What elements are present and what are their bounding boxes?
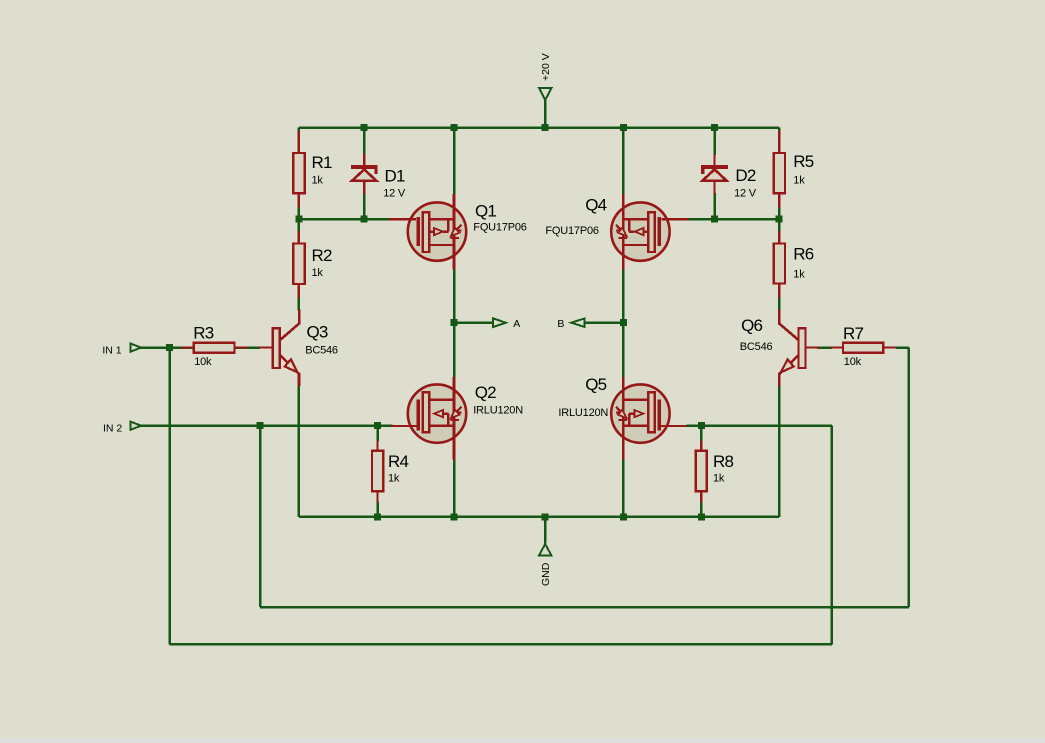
- svg-text:R4: R4: [388, 452, 408, 471]
- svg-text:10k: 10k: [844, 356, 862, 368]
- svg-text:Q5: Q5: [585, 375, 606, 394]
- svg-text:Q6: Q6: [741, 316, 762, 335]
- svg-text:IRLU120N: IRLU120N: [473, 405, 523, 417]
- svg-text:R5: R5: [793, 152, 813, 171]
- svg-text:R7: R7: [843, 324, 863, 343]
- svg-text:IN 1: IN 1: [102, 344, 121, 356]
- svg-text:R2: R2: [312, 246, 332, 265]
- svg-text:1k: 1k: [793, 269, 805, 281]
- svg-text:BC546: BC546: [740, 341, 773, 353]
- svg-text:IN 2: IN 2: [103, 422, 122, 434]
- svg-text:R3: R3: [193, 324, 213, 343]
- svg-text:A: A: [513, 318, 520, 330]
- svg-text:12 V: 12 V: [383, 187, 406, 199]
- svg-text:1k: 1k: [713, 473, 725, 485]
- svg-text:+20 V: +20 V: [540, 53, 552, 81]
- svg-text:D2: D2: [735, 166, 755, 185]
- svg-text:BC546: BC546: [305, 345, 338, 357]
- svg-text:12 V: 12 V: [734, 187, 757, 199]
- svg-text:GND: GND: [540, 562, 552, 586]
- svg-text:1k: 1k: [312, 267, 324, 279]
- svg-text:1k: 1k: [312, 175, 324, 187]
- svg-text:1k: 1k: [793, 175, 805, 187]
- svg-text:R6: R6: [793, 245, 813, 264]
- svg-text:1k: 1k: [388, 473, 400, 485]
- svg-text:Q3: Q3: [307, 322, 328, 341]
- svg-text:Q1: Q1: [475, 201, 496, 220]
- svg-text:FQU17P06: FQU17P06: [545, 225, 599, 237]
- svg-text:IRLU120N: IRLU120N: [558, 407, 608, 419]
- svg-text:D1: D1: [385, 167, 405, 186]
- svg-text:R8: R8: [713, 452, 733, 471]
- svg-text:Q4: Q4: [585, 196, 606, 215]
- svg-text:Q2: Q2: [475, 383, 496, 402]
- svg-text:B: B: [557, 318, 564, 330]
- svg-text:FQU17P06: FQU17P06: [473, 222, 527, 234]
- svg-text:R1: R1: [312, 153, 332, 172]
- svg-text:10k: 10k: [194, 356, 212, 368]
